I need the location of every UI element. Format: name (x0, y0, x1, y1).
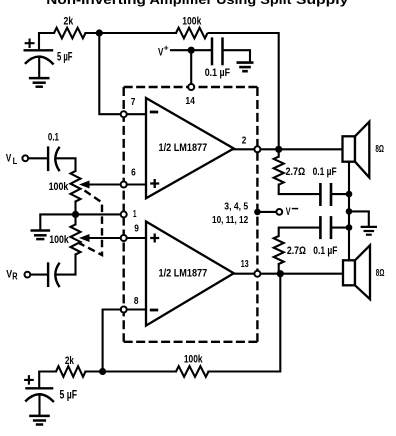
svg-text:14: 14 (185, 96, 195, 107)
resistor 2k (top) (54, 28, 86, 39)
resistor 2.7ohm ch2 (274, 236, 284, 264)
svg-text:2: 2 (242, 136, 247, 147)
wire cap ch2 to chain (332, 227, 349, 229)
pin 14 (188, 84, 194, 90)
svg-text:Supply: Supply (296, 0, 348, 7)
svg-text:0.1: 0.1 (48, 132, 59, 144)
pin 13 (254, 271, 260, 277)
pin 1 (121, 211, 127, 217)
capacitor 5uF (bottom) plates (25, 387, 53, 389)
wire pot1 bottom to node (74, 202, 76, 215)
gang link dashed (stereo pot) (79, 191, 102, 256)
svg-text:8: 8 (134, 296, 139, 307)
capacitor (VR coupling) (47, 262, 49, 287)
capacitor 0.1 (VL coupling) (47, 146, 49, 171)
output node ch2 (277, 270, 284, 277)
svg-text:100k: 100k (49, 181, 70, 193)
svg-text:Non-Inverting: Non-Inverting (46, 0, 145, 7)
svg-text:13: 13 (241, 259, 249, 270)
svg-text:0.1 µF: 0.1 µF (313, 166, 337, 178)
node pots junction (72, 211, 79, 218)
wire top-left horizontal (39, 33, 54, 51)
capacitor 0.1uF (V+ bypass) plates (211, 37, 214, 65)
svg-text:5 µF: 5 µF (60, 389, 78, 402)
resistor 100k (top) (176, 28, 208, 39)
capacitor 5uF stem to ground (38, 395, 40, 416)
svg-text:8Ω: 8Ω (375, 144, 384, 155)
capacitor 0.1uF ch2 plates (319, 216, 322, 239)
wire cap ch1 to chain (332, 193, 349, 195)
U1a plus input sign (150, 179, 159, 188)
wire pin8 to U1b inverting input (124, 308, 146, 310)
svg-text:8Ω: 8Ω (376, 268, 385, 279)
svg-text:2k: 2k (64, 15, 74, 27)
svg-text:1/2 LM1877: 1/2 LM1877 (159, 268, 208, 280)
wire U1b output to pin 13 (233, 273, 280, 275)
op-amp U1a triangle (1/2 LM1877 top) (146, 98, 234, 198)
ground wire from node row (40, 214, 75, 230)
svg-text:1: 1 (133, 209, 137, 220)
resistor 2.7ohm ch1 (274, 157, 284, 185)
IC package dashed outline LM1877 (124, 86, 258, 88)
svg-text:+: + (164, 42, 169, 52)
potentiometer 100k (left top) (71, 171, 81, 202)
wire pin9 to U1b non-inverting input (124, 237, 146, 239)
node (2k/100k junction, top) (96, 29, 103, 36)
capacitor 5uF stem to ground (38, 58, 40, 79)
svg-text:Amplifier Using Split: Amplifier Using Split (150, 0, 293, 7)
wire cap to ground corner (224, 50, 250, 62)
svg-text:5 µF: 5 µF (57, 51, 73, 64)
wire node to pin7 (99, 33, 121, 114)
wire VL to cap (29, 157, 47, 159)
resistor 2k (bottom) (56, 366, 86, 377)
svg-text:2.7Ω: 2.7Ω (286, 166, 306, 178)
wire chain to ground right (349, 211, 369, 226)
VR input terminal (25, 272, 31, 278)
pin 2 (254, 146, 260, 152)
pin 9 (121, 235, 127, 241)
svg-text:L: L (13, 156, 18, 167)
wiper arrow pot1 from pin 6 (86, 183, 121, 185)
wire V+ node down to pin 14 (190, 50, 192, 87)
svg-text:7: 7 (131, 97, 136, 108)
wire cap ch2 to corner (279, 228, 320, 236)
pin 6 (121, 182, 127, 188)
wire 100k to top-right corner, down to output node (209, 33, 279, 149)
svg-text:0.1 µF: 0.1 µF (205, 67, 231, 79)
speaker 2 (343, 260, 355, 285)
node V+ (188, 47, 195, 54)
wiper arrow pot2 from pin 9 (86, 237, 121, 239)
VL input terminal (22, 155, 28, 161)
output node ch1 (275, 146, 282, 153)
svg-text:10, 11, 12: 10, 11, 12 (212, 215, 249, 226)
svg-text:6: 6 (131, 168, 136, 179)
wire VR cap to pot2 bottom (56, 255, 76, 275)
wire 2.7ohm to cap ch1 (279, 185, 320, 194)
svg-text:0.1 µF: 0.1 µF (313, 245, 337, 257)
svg-text:2k: 2k (65, 355, 75, 367)
potentiometer 100k (left bottom) (71, 224, 81, 254)
ground (V+ bypass) (237, 61, 254, 64)
svg-text:100k: 100k (184, 354, 203, 366)
svg-text:V: V (286, 206, 291, 218)
svg-text:100k: 100k (182, 15, 202, 27)
ground (input pots) (31, 229, 51, 232)
wire node2 to speaker2 (280, 273, 343, 275)
ground (speaker return) (361, 226, 377, 228)
U1b minus input sign (150, 309, 158, 312)
svg-text:2.7Ω: 2.7Ω (287, 245, 306, 257)
speaker 1 (343, 136, 356, 161)
wire pot2 top to node (74, 214, 76, 224)
capacitor 0.1uF ch1 plates (319, 183, 322, 206)
wire node to speaker1 (279, 148, 343, 150)
wire 2k to cap corner (39, 372, 56, 389)
wire 100k to node3 (86, 370, 177, 372)
op-amp U1b triangle (1/2 LM1877 bottom) (146, 222, 234, 326)
U1a minus input sign (150, 111, 158, 114)
V- terminal (276, 209, 282, 215)
ground (top-left) (29, 77, 50, 80)
svg-text:R: R (12, 271, 17, 282)
capacitor 5uF (top-left) plates (24, 49, 54, 51)
wire VL cap to pot top (56, 158, 76, 171)
node bottom (2k/100k junction) (99, 368, 106, 375)
svg-text:100k: 100k (49, 234, 69, 246)
resistor 100k (bottom) (176, 366, 209, 377)
capacitor 5uF (bottom) plus sign (25, 376, 33, 383)
svg-text:3, 4, 5: 3, 4, 5 (224, 201, 248, 212)
wire 2k to node (86, 32, 177, 34)
ground (bottom-left) (29, 415, 50, 418)
svg-text:V: V (6, 152, 12, 164)
U1b plus input sign (150, 234, 159, 243)
wire pin6 to U1a non-inverting input (124, 183, 146, 185)
wire node to pin 1 (76, 213, 121, 215)
pin 8 (121, 307, 127, 313)
svg-text:1/2 LM1877: 1/2 LM1877 (159, 142, 208, 154)
pin 7 (121, 111, 127, 117)
chain wire with junctions (348, 194, 350, 260)
wire pin7 to U1a inverting input (124, 113, 146, 115)
wire V+ to cap (171, 49, 211, 51)
wire U1a output to pin 2 (233, 148, 279, 150)
wire V- tap (257, 211, 276, 213)
wire node3 up to pin 8 (103, 310, 121, 372)
capacitor 5uF (top-left) plus sign (26, 40, 34, 47)
wire node2 down to bottom row (209, 274, 281, 372)
wire speaker1 bottom to chain (348, 162, 350, 194)
node V- on box edge (254, 209, 261, 216)
wire VR to cap (31, 274, 47, 276)
svg-text:9: 9 (134, 223, 139, 234)
